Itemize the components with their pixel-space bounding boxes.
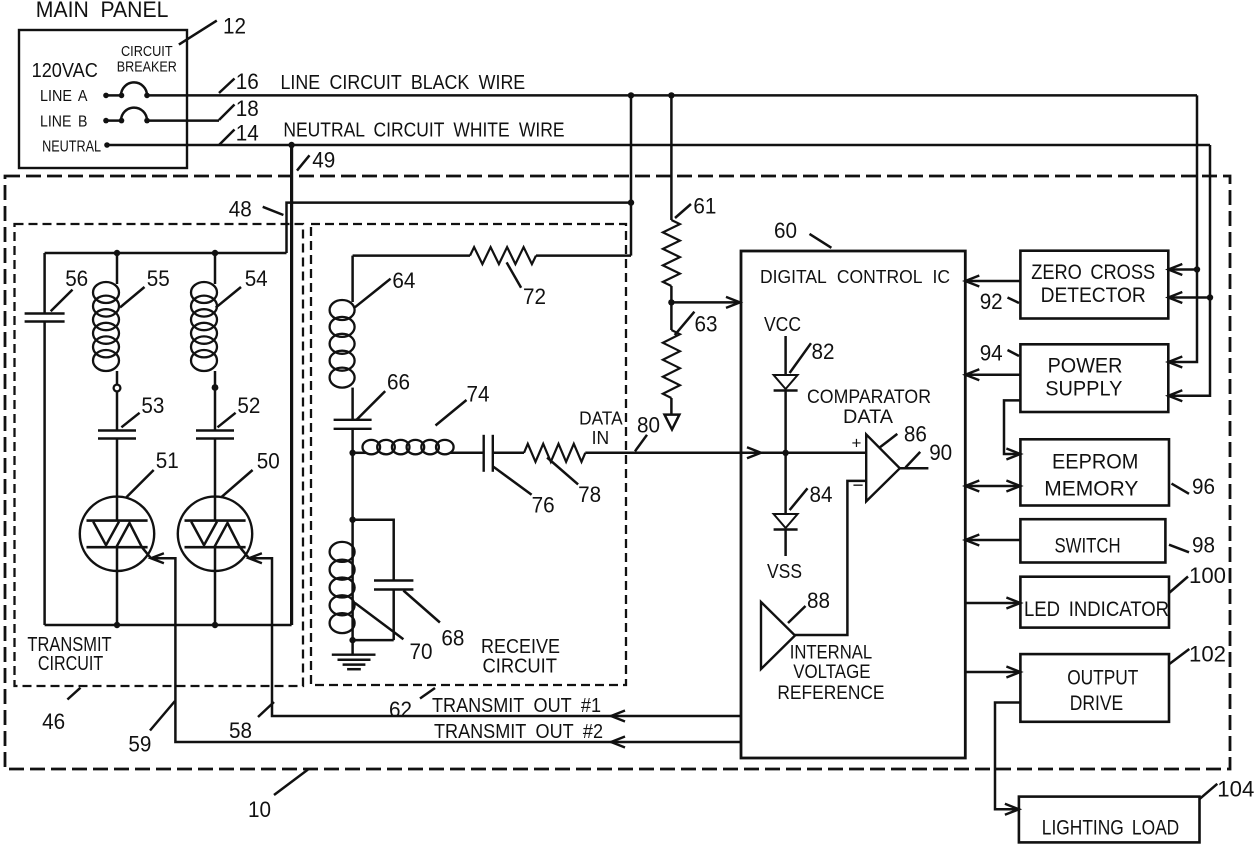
svg-text:52: 52 — [237, 393, 260, 418]
svg-text:NEUTRAL: NEUTRAL — [42, 139, 101, 156]
svg-text:INTERNAL: INTERNAL — [790, 643, 873, 664]
svg-text:COMPARATOR: COMPARATOR — [807, 387, 931, 408]
svg-text:56: 56 — [65, 266, 88, 291]
svg-text:VSS: VSS — [767, 561, 802, 583]
svg-text:MEMORY: MEMORY — [1044, 477, 1138, 500]
svg-text:82: 82 — [812, 339, 835, 364]
svg-text:EEPROM: EEPROM — [1052, 450, 1138, 473]
svg-text:53: 53 — [141, 393, 164, 418]
svg-text:LINE CIRCUIT BLACK WIRE: LINE CIRCUIT BLACK WIRE — [281, 72, 526, 94]
svg-text:70: 70 — [410, 639, 433, 664]
svg-text:68: 68 — [441, 625, 464, 650]
svg-text:DATA: DATA — [579, 407, 623, 428]
svg-text:SWITCH: SWITCH — [1055, 534, 1121, 557]
svg-text:+: + — [852, 434, 862, 453]
svg-text:OUTPUT: OUTPUT — [1067, 667, 1138, 690]
svg-text:100: 100 — [1189, 563, 1226, 588]
svg-text:50: 50 — [257, 449, 280, 474]
svg-text:CIRCUIT: CIRCUIT — [38, 653, 103, 675]
svg-text:76: 76 — [532, 492, 555, 517]
svg-text:DRIVE: DRIVE — [1070, 692, 1123, 715]
svg-text:IN: IN — [592, 427, 610, 448]
svg-text:LIGHTING LOAD: LIGHTING LOAD — [1042, 817, 1179, 840]
svg-text:REFERENCE: REFERENCE — [777, 683, 884, 704]
svg-text:61: 61 — [693, 193, 716, 218]
svg-text:BREAKER: BREAKER — [117, 60, 177, 76]
svg-text:POWER: POWER — [1048, 354, 1123, 377]
svg-text:84: 84 — [810, 482, 833, 507]
svg-text:90: 90 — [929, 440, 952, 465]
svg-text:54: 54 — [245, 266, 268, 291]
svg-text:NEUTRAL CIRCUIT WHITE WIRE: NEUTRAL CIRCUIT WHITE WIRE — [283, 120, 564, 142]
svg-text:80: 80 — [637, 413, 660, 438]
svg-text:48: 48 — [229, 196, 252, 221]
svg-text:98: 98 — [1192, 532, 1215, 557]
svg-text:LINE B: LINE B — [40, 113, 87, 130]
svg-text:72: 72 — [523, 284, 546, 309]
svg-text:88: 88 — [807, 588, 830, 613]
svg-text:LINE A: LINE A — [40, 88, 88, 105]
svg-text:86: 86 — [904, 421, 927, 446]
svg-text:49: 49 — [312, 148, 335, 173]
svg-text:DETECTOR: DETECTOR — [1041, 284, 1146, 307]
svg-text:74: 74 — [467, 382, 490, 407]
svg-text:14: 14 — [236, 121, 259, 146]
svg-text:VOLTAGE: VOLTAGE — [793, 662, 870, 683]
svg-text:VCC: VCC — [764, 314, 801, 336]
svg-text:78: 78 — [578, 482, 601, 507]
svg-text:55: 55 — [147, 266, 170, 291]
svg-text:LED INDICATOR: LED INDICATOR — [1024, 598, 1169, 621]
svg-text:ZERO CROSS: ZERO CROSS — [1031, 261, 1155, 284]
svg-text:66: 66 — [387, 369, 410, 394]
svg-text:TRANSMIT OUT #1: TRANSMIT OUT #1 — [432, 695, 601, 717]
svg-text:96: 96 — [1192, 474, 1215, 499]
svg-text:92: 92 — [980, 289, 1003, 314]
svg-text:18: 18 — [236, 96, 259, 121]
svg-text:SUPPLY: SUPPLY — [1045, 378, 1122, 401]
svg-text:DATA: DATA — [843, 407, 893, 428]
svg-text:MAIN PANEL: MAIN PANEL — [36, 0, 169, 22]
svg-text:10: 10 — [248, 797, 271, 822]
svg-text:58: 58 — [229, 718, 252, 743]
svg-text:102: 102 — [1189, 642, 1226, 667]
svg-text:59: 59 — [128, 732, 151, 757]
svg-text:63: 63 — [695, 312, 718, 337]
svg-text:−: − — [853, 476, 864, 497]
svg-text:DIGITAL CONTROL IC: DIGITAL CONTROL IC — [760, 267, 950, 287]
svg-text:62: 62 — [389, 697, 412, 722]
svg-text:16: 16 — [236, 69, 259, 94]
svg-text:RECEIVE: RECEIVE — [481, 636, 560, 658]
svg-text:120VAC: 120VAC — [32, 60, 98, 82]
svg-text:CIRCUIT: CIRCUIT — [121, 44, 173, 60]
svg-text:TRANSMIT OUT #2: TRANSMIT OUT #2 — [434, 721, 603, 743]
svg-text:51: 51 — [156, 448, 179, 473]
svg-text:12: 12 — [223, 14, 246, 39]
svg-text:94: 94 — [980, 341, 1003, 366]
svg-text:64: 64 — [392, 268, 415, 293]
svg-text:104: 104 — [1217, 777, 1254, 802]
svg-text:CIRCUIT: CIRCUIT — [483, 656, 558, 678]
svg-text:60: 60 — [774, 218, 797, 243]
svg-text:46: 46 — [42, 709, 65, 734]
